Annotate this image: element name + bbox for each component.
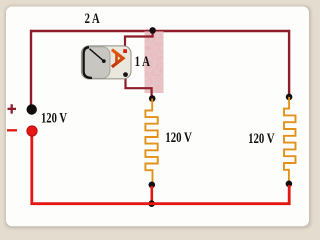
ammeter needle pivot xyxy=(102,59,106,63)
wire: ammeter output to R1 top xyxy=(126,75,152,96)
node: R1 top xyxy=(149,95,156,102)
svg-text:120 V: 120 V xyxy=(41,111,67,127)
label + xyxy=(8,104,17,113)
ammeter terminal - (dot) xyxy=(123,72,128,77)
ammeter terminal + (red square) xyxy=(123,49,127,53)
label - xyxy=(7,129,17,131)
ammeter M1 xyxy=(81,46,131,79)
ammeter dial bezel arc xyxy=(84,47,92,78)
wire: R1 bottom to bottom bus xyxy=(151,186,154,204)
ammeter label A (rotated) xyxy=(112,50,123,67)
resistor R2 xyxy=(284,97,296,184)
ammeter body xyxy=(81,46,131,79)
svg-text:1 A: 1 A xyxy=(135,54,151,70)
battery terminal + (black dot) xyxy=(27,104,37,114)
svg-text:120 V: 120 V xyxy=(165,130,192,146)
node: junction on bottom bus xyxy=(148,200,155,207)
node: junction on top bus xyxy=(149,27,156,34)
node: R1 bottom xyxy=(149,182,156,189)
node: R2 top xyxy=(286,94,293,101)
wire: ammeter branch from top bus junction xyxy=(125,32,153,51)
resistor R1 xyxy=(145,99,157,185)
ammeter needle xyxy=(90,49,104,61)
svg-text:2 A: 2 A xyxy=(85,11,100,27)
ammeter dial face xyxy=(83,47,110,78)
wire: negative bus (battery - down, across bottom, up to R2) xyxy=(32,131,289,204)
battery terminal - (red dot) xyxy=(27,126,37,136)
highlight patch (pink) over replaced wire section xyxy=(145,32,164,94)
svg-text:120 V: 120 V xyxy=(248,131,275,147)
wire: positive bus (battery + up, across top, down to R2) xyxy=(31,31,289,105)
node: R2 bottom xyxy=(286,181,293,188)
